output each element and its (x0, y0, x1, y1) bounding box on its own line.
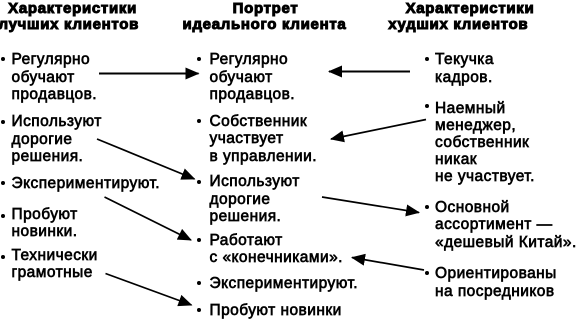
col3 item2 (425, 104, 429, 108)
col1 item1 (1, 57, 5, 61)
arrow col3-i4 to col2-i4 (352, 258, 424, 271)
col1 item4 (1, 214, 5, 218)
col2 item3 (197, 180, 201, 184)
arrow col3-i1 to col2-i1 (329, 71, 410, 73)
col2 item4 (197, 238, 201, 242)
arrow col1-i1 to col2-i1 (99, 73, 199, 75)
col3 item4 (425, 271, 429, 275)
arrow col1-i3 to col2-i4 (105, 197, 192, 240)
col1 item2 (1, 120, 5, 124)
header column 1 (8, 1, 137, 17)
header column 2 (233, 1, 299, 17)
col2 item6 (197, 308, 201, 312)
arrow col1-i2 to col2-i3 (97, 139, 195, 179)
col2 item5 (197, 281, 201, 285)
arrow col1-i5 to col2-i6 (106, 274, 192, 306)
col2 item1 (197, 57, 201, 61)
col3 item3 (425, 205, 429, 209)
col1 item3 (1, 181, 5, 185)
arrow col3-i2 to col2-i2 (331, 120, 426, 140)
col3 item1 (425, 57, 429, 61)
header column 3 (406, 1, 535, 17)
arrow col2-i3 to col3-i3 (322, 197, 419, 213)
col2 item2 (197, 119, 201, 123)
col1 item5 (1, 255, 5, 259)
